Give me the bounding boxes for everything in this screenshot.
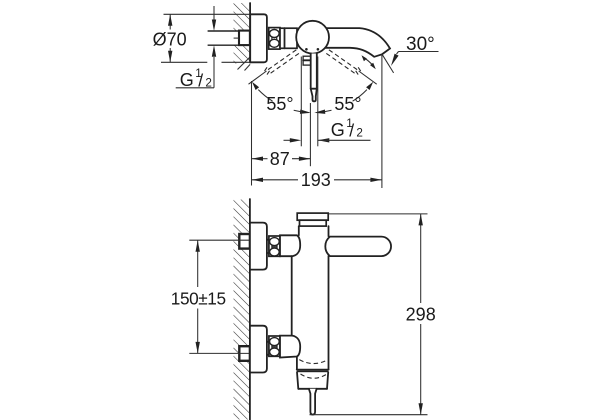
screw dot right (317, 48, 320, 51)
svg-text:150±15: 150±15 (171, 289, 226, 309)
aerator cup (side view) (297, 370, 329, 389)
dim 298: dimension line + arrows (419, 214, 423, 415)
dim G1/2 left: leader + arrows (176, 6, 217, 88)
escutcheon flange (top view) (250, 14, 267, 62)
dim 298: bottom extension line (310, 414, 428, 416)
svg-text:/: / (198, 70, 203, 90)
dim 70: extension lines (161, 14, 250, 62)
dashed lever at 55deg left (264, 50, 299, 75)
valve housing (top view) (280, 28, 297, 48)
lever handle pointing down (top view) (311, 54, 317, 102)
wall socket stub (top view) (234, 31, 250, 45)
screw dot left (305, 48, 308, 51)
top escutcheon flange (side view) (250, 223, 267, 270)
dim 193: left extension line (wall face) (251, 81, 253, 186)
svg-text:298: 298 (406, 305, 436, 325)
union nut (top view) (269, 28, 280, 49)
svg-text:87: 87 (270, 149, 290, 169)
bottom valve housing (side view) (280, 336, 300, 358)
bottom thread stub between flange and nut (267, 342, 269, 355)
dim 298: top extension line (328, 213, 427, 215)
lever centre line (309, 103, 311, 166)
body left edge upper (298, 226, 300, 235)
dim 87: dimension line + arrows (252, 157, 311, 161)
top thread stub between flange and nut (267, 240, 269, 253)
dim G1/2 right: arrows + leader (284, 138, 371, 142)
outlet stream / plunger (309, 389, 317, 415)
svg-text:G: G (331, 120, 345, 140)
cartridge cap circle (top view) (296, 21, 329, 54)
body left edge lower (296, 357, 298, 370)
top wall socket stub (side view) (239, 234, 250, 249)
svg-text:2: 2 (205, 77, 212, 90)
top valve housing (side view) (280, 235, 300, 256)
svg-text:30°: 30° (406, 34, 435, 55)
dim 70: dimension line + arrows (168, 14, 172, 62)
55deg angle leg line right (359, 71, 377, 84)
dashed lever at 55deg right (326, 50, 361, 75)
30deg slant line (382, 54, 394, 73)
svg-text:193: 193 (301, 170, 331, 190)
svg-text:G: G (180, 70, 194, 90)
30deg reference: vertical extension line at spout tip (381, 54, 383, 188)
30deg leader + arrow (391, 52, 439, 67)
dim 193: dimension line + arrows (252, 178, 382, 182)
svg-text:55°: 55° (334, 94, 361, 114)
55deg angle leg line left (249, 71, 267, 84)
svg-text:Ø70: Ø70 (153, 30, 187, 50)
svg-text:2: 2 (356, 127, 363, 140)
inlet pipe (top view) (208, 31, 240, 45)
body right edge (328, 226, 330, 370)
spout (top view, curving down-right) (322, 28, 390, 57)
55deg dimension arc + arrowheads (252, 82, 373, 114)
svg-text:/: / (349, 120, 354, 140)
bottom wall socket stub (side view) (239, 346, 250, 361)
dim 150: dimension line + arrows (196, 240, 200, 353)
lever collar (top view) (303, 56, 311, 65)
outlet hidden edge (dashed arc) (299, 360, 328, 364)
dim G1/2 right: extension lines (301, 57, 318, 147)
wall (side view, hatched) (234, 199, 250, 420)
top cap (side view) (297, 213, 328, 226)
body left edge middle section (291, 256, 293, 335)
label G 1/2 right (331, 117, 363, 140)
lever handle (side view) (325, 237, 391, 257)
top union nut (side view) (269, 236, 280, 256)
bottom union nut (side view) (269, 336, 280, 356)
spout swivel arc arrow (362, 55, 376, 69)
label G 1/2 left (180, 67, 212, 90)
svg-text:55°: 55° (266, 94, 293, 114)
wall (top view, hatched) (234, 3, 251, 71)
aerator hidden edge (dashed arc) (301, 374, 327, 378)
bottom escutcheon flange (side view) (250, 326, 267, 373)
dim 150: extension lines (189, 240, 250, 353)
